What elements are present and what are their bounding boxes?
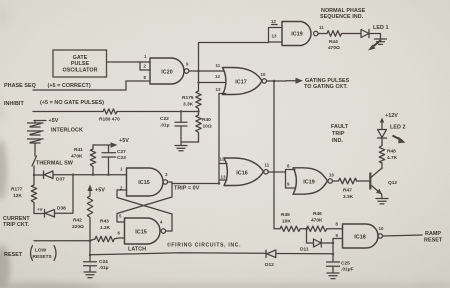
ground bbox=[84, 272, 96, 278]
svg-text:R45: R45 bbox=[281, 212, 290, 218]
svg-text:OSCILLATOR: OSCILLATOR bbox=[62, 68, 97, 74]
svg-text:R40: R40 bbox=[202, 117, 211, 123]
wire D11 to pin 9 riser bbox=[321, 239, 342, 244]
wire riser to IC19 inputs bbox=[199, 43, 269, 72]
gate IC15 bottom bbox=[125, 218, 166, 244]
svg-text:12K: 12K bbox=[13, 193, 22, 199]
svg-text:R177: R177 bbox=[11, 187, 23, 193]
diode D38 bbox=[45, 206, 67, 218]
svg-text:470K: 470K bbox=[311, 218, 323, 224]
gate IC18 bbox=[343, 224, 383, 248]
wire PHASE SEQ to IC20 pin 8 bbox=[33, 81, 150, 90]
node INHIBIT label bbox=[4, 100, 104, 107]
gate IC17 bbox=[223, 68, 267, 95]
wire junction down to D11 bbox=[307, 229, 314, 243]
ground bbox=[376, 199, 388, 204]
wire INHIBIT line to R175/R40 junction bbox=[33, 111, 199, 113]
resistor R45 bbox=[280, 212, 307, 232]
thermal switch SW bbox=[32, 156, 74, 175]
svg-text:11: 11 bbox=[265, 163, 270, 168]
svg-text:+5V: +5V bbox=[95, 188, 105, 194]
svg-text:1.2K: 1.2K bbox=[100, 225, 111, 231]
svg-text:.01μF: .01μF bbox=[341, 267, 354, 273]
svg-text:IC19: IC19 bbox=[291, 32, 303, 38]
svg-text:3.3K: 3.3K bbox=[343, 194, 354, 200]
interlock switch chain bbox=[28, 121, 44, 157]
svg-text:13: 13 bbox=[216, 87, 221, 92]
svg-text:R43: R43 bbox=[100, 219, 109, 225]
wire osc output to IC20 pins 1,2 bbox=[107, 62, 151, 70]
svg-text:470Ω: 470Ω bbox=[328, 45, 340, 51]
gate IC19 bbox=[282, 22, 318, 46]
ground bbox=[327, 273, 339, 279]
svg-text:RAMP: RAMP bbox=[425, 231, 441, 237]
svg-text:.01μ: .01μ bbox=[99, 265, 109, 271]
wire IC17 pin 13 / long vertical to IC16 bbox=[219, 94, 226, 185]
svg-text:D37: D37 bbox=[56, 177, 65, 183]
resistor R44 bbox=[318, 31, 345, 51]
svg-text:C24: C24 bbox=[99, 259, 108, 265]
wire jog IC19 pins 12,13 bbox=[269, 25, 283, 43]
svg-text:IND.: IND. bbox=[332, 138, 343, 144]
oscillator box U-OSC bbox=[53, 50, 107, 77]
svg-text:C27: C27 bbox=[117, 149, 126, 155]
svg-text:C23: C23 bbox=[117, 155, 126, 161]
diode D37 bbox=[44, 171, 66, 183]
resistor R40 bbox=[196, 112, 212, 143]
node RAMP RESET bbox=[424, 231, 443, 244]
svg-text:IC15: IC15 bbox=[138, 180, 150, 186]
wire D38 line bbox=[34, 175, 73, 214]
resistor R177 bbox=[11, 175, 37, 214]
resistor R46 bbox=[305, 211, 342, 232]
svg-text:12: 12 bbox=[220, 157, 225, 162]
svg-text:D38: D38 bbox=[57, 206, 66, 212]
svg-text:RESETS: RESETS bbox=[33, 254, 53, 260]
arrow GATING PULSES bbox=[286, 78, 350, 90]
svg-text:LATCH: LATCH bbox=[128, 247, 146, 253]
svg-text:LOW: LOW bbox=[35, 248, 47, 254]
wire TRIP output bbox=[168, 182, 220, 184]
resistor R175 bbox=[182, 71, 201, 112]
node junction bbox=[197, 70, 199, 72]
wire IC16 out to IC19b jog bbox=[268, 170, 295, 189]
node +12V bbox=[380, 113, 398, 123]
gate IC20 bbox=[150, 58, 189, 84]
diode D12 bbox=[265, 250, 276, 268]
svg-text:TRIP = 0V: TRIP = 0V bbox=[174, 186, 200, 192]
svg-text:220Ω: 220Ω bbox=[72, 224, 84, 230]
node CURRENT TRIP CKT bbox=[3, 207, 43, 228]
LED D-LED1 bbox=[361, 25, 389, 51]
svg-text:R48: R48 bbox=[387, 149, 396, 155]
wire IC17 pin 12 from R175 chain bbox=[199, 82, 226, 84]
capacitor C22 bbox=[160, 110, 200, 142]
svg-text:+5V: +5V bbox=[119, 138, 129, 144]
svg-text:10Ω: 10Ω bbox=[203, 124, 212, 130]
wire RESET line bbox=[34, 240, 90, 242]
wire IC18 output RAMP RESET bbox=[383, 235, 423, 236]
svg-text:470K: 470K bbox=[71, 154, 83, 160]
svg-text:TRIP CKT.: TRIP CKT. bbox=[3, 222, 30, 228]
svg-text:C25: C25 bbox=[341, 261, 350, 267]
svg-text:11: 11 bbox=[319, 25, 324, 30]
svg-text:C22: C22 bbox=[160, 116, 169, 122]
svg-text:+5V: +5V bbox=[49, 118, 59, 124]
LED D-LED2 bbox=[378, 121, 406, 144]
svg-text:R41: R41 bbox=[74, 147, 83, 153]
svg-text:LED 1: LED 1 bbox=[373, 25, 389, 31]
wire reset to C24 and lower rail bbox=[90, 241, 333, 255]
+5V arrow bbox=[111, 138, 130, 148]
+5V arrow R42 bbox=[87, 185, 105, 194]
svg-text:INTERLOCK: INTERLOCK bbox=[51, 128, 83, 134]
svg-text:LED 2: LED 2 bbox=[390, 125, 406, 131]
gate IC15 top bbox=[127, 168, 168, 196]
ground bbox=[175, 142, 187, 151]
resistor R41 bbox=[71, 145, 96, 176]
svg-text:R44: R44 bbox=[329, 39, 338, 45]
svg-text:TRIP: TRIP bbox=[332, 131, 345, 137]
capacitor C23 bbox=[102, 145, 126, 176]
svg-text:R46: R46 bbox=[313, 211, 322, 217]
svg-text:(+5 = NO GATE PULSES): (+5 = NO GATE PULSES) bbox=[40, 100, 104, 106]
svg-text:12: 12 bbox=[215, 74, 220, 79]
svg-text:R175: R175 bbox=[182, 95, 194, 101]
wire IC20 output to IC17 pin 11 bbox=[189, 70, 224, 72]
resistor R47 bbox=[332, 178, 369, 200]
node PHASE SEQ label bbox=[4, 83, 91, 89]
svg-text:.01μ: .01μ bbox=[160, 123, 170, 129]
svg-text:(+5 = CORRECT): (+5 = CORRECT) bbox=[48, 83, 91, 89]
wire IC16 input stubs bbox=[219, 164, 227, 181]
svg-text:11: 11 bbox=[216, 63, 221, 68]
svg-text:13: 13 bbox=[221, 175, 226, 180]
svg-text:©FIRING CIRCUITS, INC.: ©FIRING CIRCUITS, INC. bbox=[167, 241, 241, 248]
wire vertical IC17 out down to R45 bbox=[274, 81, 280, 229]
svg-text:13: 13 bbox=[272, 34, 277, 39]
svg-text:R42: R42 bbox=[73, 218, 82, 224]
label NORMAL PHASE SEQUENCE IND. bbox=[320, 8, 366, 20]
svg-text:10: 10 bbox=[261, 72, 266, 77]
svg-text:10: 10 bbox=[379, 226, 384, 231]
wire emitter to ground bbox=[381, 194, 384, 198]
svg-text:IC17: IC17 bbox=[235, 80, 247, 86]
resistor R42 bbox=[72, 190, 93, 241]
svg-text:RESET: RESET bbox=[424, 238, 443, 244]
svg-text:IC19: IC19 bbox=[303, 180, 315, 186]
gate IC19 b bbox=[293, 168, 332, 194]
wire LED1 to ground bbox=[369, 34, 381, 39]
svg-text:INHIBIT: INHIBIT bbox=[4, 101, 24, 107]
capacitor C24 bbox=[84, 255, 109, 272]
wire trip node to IC15 pin 1 bbox=[34, 174, 127, 176]
svg-text:R180 470: R180 470 bbox=[99, 117, 120, 123]
svg-text:10K: 10K bbox=[282, 219, 291, 225]
node RESET label bbox=[4, 246, 56, 261]
label FAULT TRIP IND bbox=[331, 124, 349, 144]
svg-text:IC15: IC15 bbox=[135, 230, 147, 236]
resistor R180 bbox=[99, 109, 120, 123]
svg-text:THERMAL SW: THERMAL SW bbox=[36, 161, 74, 167]
ground bbox=[375, 39, 387, 44]
svg-text:FAULT: FAULT bbox=[331, 124, 349, 130]
resistor R48 bbox=[379, 144, 397, 169]
resistor R43 bbox=[90, 219, 125, 242]
svg-text:IC18: IC18 bbox=[354, 235, 366, 241]
capacitor C25 bbox=[327, 261, 354, 273]
svg-text:+V: +V bbox=[37, 207, 43, 212]
svg-text:D11: D11 bbox=[300, 247, 309, 253]
wire +5V rail to C23 bbox=[93, 144, 112, 146]
svg-text:IC16: IC16 bbox=[236, 171, 248, 177]
svg-text:12: 12 bbox=[271, 19, 276, 24]
node +5V interlock bbox=[34, 118, 83, 134]
svg-text:Q12: Q12 bbox=[388, 180, 397, 186]
wire IC17 output to arrow bbox=[267, 80, 287, 82]
svg-text:PULSE: PULSE bbox=[71, 61, 90, 67]
svg-text:PHASE SEQ: PHASE SEQ bbox=[4, 83, 36, 89]
svg-text:4.7K: 4.7K bbox=[387, 155, 398, 161]
svg-text:R47: R47 bbox=[343, 188, 352, 194]
wire cross-coupling latch bbox=[117, 184, 172, 232]
svg-text:TO GATING CKT.: TO GATING CKT. bbox=[304, 84, 348, 90]
svg-text:SEQUENCE IND.: SEQUENCE IND. bbox=[320, 14, 364, 20]
svg-text:10: 10 bbox=[329, 173, 334, 178]
svg-text:+12V: +12V bbox=[385, 113, 398, 119]
svg-text:3.3K: 3.3K bbox=[183, 102, 194, 108]
svg-text:D12: D12 bbox=[265, 262, 274, 268]
svg-text:RESET: RESET bbox=[4, 252, 23, 258]
diode D11 bbox=[300, 239, 321, 253]
svg-text:IC20: IC20 bbox=[161, 70, 173, 76]
wire C25 riser bbox=[332, 243, 334, 262]
wire R44 to LED1 bbox=[345, 33, 361, 35]
gate IC16 bbox=[224, 158, 268, 186]
transistor Q12 bbox=[370, 168, 397, 194]
